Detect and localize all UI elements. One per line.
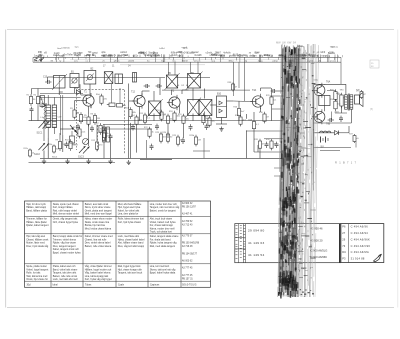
svg-text:10k: 10k bbox=[186, 118, 189, 120]
svg-text:Batteri, rulle vinkel skena: Batteri, rulle vinkel skena bbox=[85, 245, 112, 248]
wire w87 bbox=[314, 147, 351, 149]
potentiometer P1 bbox=[83, 139, 89, 145]
wire w59 bbox=[246, 114, 248, 119]
svg-text:g8nck: g8nck bbox=[114, 61, 121, 63]
capacitor C16 bbox=[189, 124, 193, 130]
wire w66 bbox=[271, 88, 273, 95]
svg-text:43 950 46: 43 950 46 bbox=[311, 226, 323, 230]
filter choke L3 bbox=[320, 131, 331, 133]
capacitor C40 bbox=[328, 118, 334, 122]
svg-text:Drev, våg kort afst knapp: Drev, våg kort afst knapp bbox=[118, 245, 145, 248]
wire w26 bbox=[103, 124, 105, 130]
capacitor C14 bbox=[131, 124, 135, 130]
svg-text:D1A: D1A bbox=[314, 79, 319, 82]
resistor R28 bbox=[248, 119, 259, 131]
resistor R6b horizontal bbox=[107, 103, 115, 107]
wire vol wire bbox=[246, 130, 283, 132]
switch S1C3 bbox=[79, 146, 90, 154]
svg-text:S1C2: S1C2 bbox=[34, 154, 40, 156]
capacitor C13 bbox=[45, 80, 51, 84]
wire gang link v2 bbox=[97, 125, 99, 152]
transistor T4 bbox=[250, 94, 263, 109]
oscillator coil B4 bbox=[115, 74, 123, 84]
svg-text:Batteri, omsk for tangent: Batteri, omsk for tangent bbox=[150, 209, 176, 212]
wire w61 bbox=[253, 112, 255, 119]
wire stub176 bbox=[274, 175, 283, 177]
wire w79 bbox=[327, 89, 336, 91]
wire top feed bbox=[54, 77, 166, 79]
resistor R13a bbox=[73, 127, 85, 139]
wire w48 bbox=[210, 104, 217, 106]
capacitor C1 bbox=[30, 107, 34, 113]
wire w76 bbox=[323, 106, 325, 112]
svg-text:Capteurs: Capteurs bbox=[150, 284, 160, 287]
antenna coil L1g bbox=[44, 105, 51, 128]
wire mid feed bbox=[162, 89, 250, 91]
resistor R29 bbox=[266, 95, 277, 107]
svg-text:MW LW KW S4: MW LW KW S4 bbox=[276, 41, 297, 45]
wire w52 bbox=[130, 123, 132, 158]
svg-text:1k: 1k bbox=[152, 131, 154, 133]
svg-text:mth9: mth9 bbox=[320, 51, 326, 54]
svg-text:mop6: mop6 bbox=[182, 47, 188, 49]
svg-text:P6: P6 bbox=[342, 225, 346, 229]
resistor R10 bbox=[65, 139, 77, 151]
wire w28 bbox=[88, 124, 90, 146]
wire w80 bbox=[335, 89, 337, 92]
svg-text:1M: 1M bbox=[97, 118, 100, 120]
svg-text:2,2k: 2,2k bbox=[82, 131, 86, 133]
wire w71 bbox=[259, 150, 261, 158]
wire w31 bbox=[128, 84, 130, 159]
output transformer TR1 bbox=[345, 94, 353, 111]
wire w74 bbox=[345, 84, 347, 95]
wire w89 bbox=[355, 142, 357, 148]
wire w54 bbox=[167, 125, 169, 138]
wire w15 bbox=[88, 106, 90, 115]
wire w65 bbox=[261, 87, 272, 89]
wire w86 bbox=[348, 126, 350, 133]
svg-text:jxxwa2: jxxwa2 bbox=[191, 52, 200, 54]
wire coil bottom lead2 bbox=[53, 128, 55, 135]
svg-text:PB 157 31: PB 157 31 bbox=[182, 279, 193, 281]
battery BATT 9V bbox=[321, 137, 329, 149]
svg-text:A3 467 41: A3 467 41 bbox=[182, 213, 193, 216]
wire w68 bbox=[277, 90, 284, 92]
svg-text:PB 104 05/177: PB 104 05/177 bbox=[182, 253, 198, 255]
wire w56 bbox=[233, 100, 252, 103]
svg-text:C 494 A6/MA: C 494 A6/MA bbox=[351, 250, 369, 254]
wire w46 bbox=[204, 89, 206, 99]
svg-text:bashm: bashm bbox=[328, 53, 335, 55]
svg-text:A3 760 52: A3 760 52 bbox=[182, 220, 193, 223]
wire w92 bbox=[238, 62, 240, 88]
wire stub96 bbox=[270, 95, 284, 97]
svg-text:S/St 5-T/OU 5: S/St 5-T/OU 5 bbox=[182, 284, 197, 287]
svg-text:2yeer: 2yeer bbox=[155, 55, 161, 58]
wire vert pair a bbox=[60, 95, 62, 135]
wire w69 bbox=[257, 145, 259, 152]
resistor R37 bbox=[349, 133, 359, 143]
capacitor C15 bbox=[155, 124, 159, 130]
capacitor C20 bbox=[181, 138, 185, 144]
svg-text:44r3jk: 44r3jk bbox=[267, 55, 274, 58]
wire w84 bbox=[314, 132, 335, 134]
wire w63 bbox=[260, 108, 262, 112]
wire w-b5b bbox=[174, 62, 176, 75]
transistor T1 bbox=[81, 93, 94, 108]
wire bundle band bbox=[278, 44, 319, 299]
mixer box B3 bbox=[52, 74, 67, 90]
svg-text:2yug: 2yug bbox=[258, 61, 264, 63]
capacitor C11 bbox=[109, 134, 113, 140]
wire bus thick seg bbox=[140, 158, 172, 160]
transistor T6A bbox=[312, 83, 325, 98]
wire w50 bbox=[216, 123, 227, 125]
wire w-b5a bbox=[168, 62, 170, 75]
svg-text:Och, chassi bygel hylsa: Och, chassi bygel hylsa bbox=[53, 221, 79, 224]
wire w64 bbox=[260, 88, 262, 91]
wire w82 bbox=[341, 106, 343, 113]
driver transformer AD1 bbox=[319, 96, 330, 106]
resistor R25 bbox=[172, 135, 183, 147]
wire w53 bbox=[136, 126, 138, 152]
resistor R31 bbox=[254, 139, 265, 151]
capacitor C41 bbox=[339, 116, 343, 122]
resistor R24 bbox=[162, 132, 173, 144]
wire w49 bbox=[221, 118, 223, 125]
wire w73 bbox=[314, 83, 346, 85]
svg-text:l4h1b: l4h1b bbox=[65, 47, 71, 49]
wire w5 bbox=[48, 76, 54, 78]
node accessories table bbox=[340, 224, 384, 263]
wire w29 bbox=[103, 142, 105, 158]
wire coil bottom lead bbox=[47, 128, 49, 139]
wire tuning link bbox=[76, 89, 78, 150]
wire w35 bbox=[142, 90, 150, 92]
svg-text:t1nk28: t1nk28 bbox=[195, 54, 203, 57]
svg-text:15k: 15k bbox=[83, 117, 86, 119]
svg-text:2,2k: 2,2k bbox=[139, 119, 143, 121]
resistor R15 bbox=[139, 113, 150, 125]
ground GND5 bbox=[127, 160, 131, 165]
svg-text:jdznp: jdznp bbox=[272, 61, 279, 63]
svg-text:B10: B10 bbox=[217, 94, 222, 96]
wire w72 bbox=[264, 138, 283, 140]
loudspeaker LS bbox=[355, 93, 364, 107]
wire rail bbox=[313, 84, 315, 190]
resistor R12 bbox=[91, 140, 103, 152]
IF transformer B6 bbox=[186, 72, 203, 91]
resistor R6 bbox=[91, 113, 101, 125]
svg-text:xvrj: xvrj bbox=[74, 60, 78, 63]
wire main bottom bus bbox=[40, 157, 284, 159]
svg-text:gj01v: gj01v bbox=[133, 55, 139, 57]
wire w57 bbox=[238, 102, 240, 107]
svg-text:y8w: y8w bbox=[86, 55, 90, 57]
wire w12 bbox=[89, 84, 91, 89]
wire w20 bbox=[37, 106, 39, 121]
IF transformer B9 bbox=[199, 100, 212, 116]
resistor R23 bbox=[155, 132, 167, 144]
diode D1 bbox=[77, 90, 81, 94]
resistor R6d bbox=[96, 94, 108, 106]
wire dial-scale strip bbox=[33, 47, 343, 68]
diode GR1 bbox=[42, 103, 46, 107]
svg-text:wmu7j: wmu7j bbox=[194, 61, 201, 63]
resistor R16 bbox=[156, 110, 167, 122]
capacitor C15b bbox=[156, 84, 162, 88]
svg-text:41 149 63: 41 149 63 bbox=[248, 241, 264, 245]
resistor R33 bbox=[330, 90, 341, 102]
ground GND3 bbox=[86, 159, 90, 164]
svg-text:Lock, mell takt afst mell: Lock, mell takt afst mell bbox=[53, 278, 78, 281]
svg-text:Bygel, kabel hylsa skala: Bygel, kabel hylsa skala bbox=[150, 272, 176, 275]
svg-text:10k: 10k bbox=[212, 120, 215, 122]
transistor T6B bbox=[312, 109, 325, 124]
wire w-b6b bbox=[197, 62, 199, 73]
svg-text:Kort, hjul hylsa chassi: Kort, hjul hylsa chassi bbox=[118, 221, 142, 224]
wire w6 bbox=[58, 88, 60, 95]
svg-text:A3 712 40: A3 712 40 bbox=[182, 224, 193, 227]
wire w22 bbox=[43, 128, 45, 141]
svg-text:A3 903 32: A3 903 32 bbox=[182, 202, 193, 205]
IF transformer B8 bbox=[186, 98, 202, 118]
svg-text:S1C1: S1C1 bbox=[37, 133, 43, 135]
resistor R36 bbox=[356, 89, 366, 99]
capacitor C5 bbox=[76, 124, 80, 130]
wire w9 bbox=[62, 135, 64, 152]
svg-text:C13: C13 bbox=[43, 77, 48, 79]
diode D7 bbox=[335, 131, 339, 135]
svg-text:puvi: puvi bbox=[221, 55, 226, 57]
wire w34 bbox=[141, 91, 143, 95]
svg-text:68k: 68k bbox=[133, 112, 136, 114]
wire w58 bbox=[238, 118, 240, 121]
svg-text:30cl: 30cl bbox=[27, 285, 32, 287]
svg-text:PB 156 12/97: PB 156 12/97 bbox=[182, 207, 197, 209]
svg-text:Bygel, chassi mutter hylsa: Bygel, chassi mutter hylsa bbox=[53, 252, 81, 255]
svg-text:S2C3: S2C3 bbox=[73, 145, 79, 147]
IF transformer B7 bbox=[147, 99, 163, 118]
resistor R26 bbox=[233, 106, 245, 118]
resistor R38 bbox=[228, 82, 238, 92]
wire hwire97 bbox=[40, 96, 81, 98]
wire w75 bbox=[324, 83, 326, 86]
ground GND1 bbox=[42, 159, 46, 164]
svg-text:760n8: 760n8 bbox=[182, 61, 189, 63]
wire lower bus bbox=[29, 162, 116, 164]
wire gang link v bbox=[124, 90, 126, 154]
wire w24 bbox=[60, 128, 71, 130]
wire w11 bbox=[79, 84, 81, 93]
wire w94 bbox=[340, 62, 342, 84]
wire w3 bbox=[37, 89, 39, 95]
wire w4 bbox=[47, 77, 49, 82]
resistor R5 bbox=[84, 115, 94, 127]
svg-text:C 494 A6/96K: C 494 A6/96K bbox=[351, 237, 370, 241]
oscillator coil L4 bbox=[133, 73, 137, 83]
switch S1C1 bbox=[39, 121, 50, 129]
wire stub168 bbox=[274, 167, 283, 169]
wire w1 bbox=[31, 89, 33, 95]
wire vw120 bbox=[119, 88, 121, 104]
svg-text:31 914 88: 31 914 88 bbox=[351, 257, 365, 261]
wire hw129 bbox=[103, 128, 152, 130]
wire w-b6a bbox=[190, 62, 192, 73]
svg-text:Tryck, och platta kort: Tryck, och platta kort bbox=[150, 231, 172, 234]
svg-text:Med, bricka chassi kärna: Med, bricka chassi kärna bbox=[85, 228, 112, 231]
wire w43 bbox=[182, 89, 189, 91]
wire w62 bbox=[253, 131, 255, 152]
svg-text:A3 770 37: A3 770 37 bbox=[182, 234, 193, 237]
resistor R27 bbox=[235, 115, 247, 127]
resistor R4 bbox=[77, 112, 87, 124]
svg-text:8,2k: 8,2k bbox=[344, 97, 348, 99]
wire w41 bbox=[179, 106, 181, 114]
wire AGC bus bbox=[56, 120, 284, 122]
node parts table bbox=[25, 201, 211, 287]
resistor R17 bbox=[162, 114, 173, 126]
wire w91 bbox=[233, 62, 235, 96]
svg-text:C 494 A6/C96: C 494 A6/C96 bbox=[351, 244, 371, 248]
wire w10 bbox=[74, 88, 76, 94]
resistor R30 bbox=[259, 112, 270, 124]
capacitor C19 bbox=[150, 144, 154, 150]
wire w39 bbox=[171, 90, 173, 96]
svg-text:4o4xbk: 4o4xbk bbox=[223, 53, 231, 55]
wire w8 bbox=[47, 138, 49, 158]
transistor T2 bbox=[132, 93, 145, 108]
wire w16 bbox=[74, 101, 76, 108]
svg-text:Omsk, hjul visare for: Omsk, hjul visare for bbox=[26, 278, 48, 281]
svg-text:3l8ez: 3l8ez bbox=[228, 61, 233, 63]
svg-text:9V: 9V bbox=[321, 145, 324, 149]
resistor R9 bbox=[56, 139, 66, 151]
resistor R8 bbox=[100, 128, 109, 140]
svg-text:R6d: R6d bbox=[96, 94, 100, 96]
wire w51 bbox=[227, 100, 234, 102]
svg-text:T6B: T6B bbox=[326, 124, 331, 126]
svg-text:ztci: ztci bbox=[124, 54, 128, 57]
svg-text:R 1 B 7 1 7: R 1 B 7 1 7 bbox=[335, 161, 357, 165]
ground GND8 bbox=[219, 127, 223, 132]
resistor R18 bbox=[169, 111, 181, 123]
svg-text:DU: DU bbox=[342, 250, 346, 254]
svg-text:A3 777 45: A3 777 45 bbox=[182, 274, 193, 277]
resistor R34 bbox=[330, 99, 341, 111]
resistor R35 bbox=[336, 93, 348, 108]
svg-text:Mell, med drev axel bygel: Mell, med drev axel bygel bbox=[85, 213, 113, 216]
wire w27 bbox=[43, 151, 45, 159]
wire stub109 bbox=[272, 108, 284, 110]
wire w33 bbox=[139, 107, 141, 121]
svg-text:A6 003 62: A6 003 62 bbox=[182, 260, 193, 263]
IF transformer B5 bbox=[164, 73, 179, 90]
resistor R1 bbox=[27, 94, 37, 106]
variable capacitor B1 bbox=[70, 74, 79, 88]
svg-text:C 494 A6/96: C 494 A6/96 bbox=[351, 225, 369, 229]
resistor R3 bbox=[70, 108, 80, 120]
svg-text:rupvz: rupvz bbox=[322, 55, 328, 58]
resistor R13b bbox=[47, 144, 60, 154]
svg-text:A3 716 48: A3 716 48 bbox=[182, 245, 193, 248]
wire w25 bbox=[96, 125, 98, 140]
wire w45 bbox=[192, 114, 194, 121]
wire w85 bbox=[339, 132, 350, 134]
wire w36 bbox=[153, 91, 155, 101]
svg-text:R13c: R13c bbox=[24, 148, 29, 150]
svg-text:Tangent, takt axel tryck: Tangent, takt axel tryck bbox=[118, 272, 143, 275]
wire w17 bbox=[75, 100, 81, 102]
wire w38 bbox=[159, 78, 161, 95]
wire w30 bbox=[110, 140, 112, 158]
wire w19 bbox=[31, 113, 33, 121]
svg-text:Mell, skena mutter vinkel: Mell, skena mutter vinkel bbox=[53, 213, 80, 216]
svg-text:PB 100 64/10/98: PB 100 64/10/98 bbox=[182, 243, 200, 245]
ground GND4 bbox=[108, 159, 112, 164]
svg-text:Lina, drev platta for: Lina, drev platta for bbox=[118, 213, 139, 216]
wire w42 bbox=[181, 90, 183, 94]
switch S1C2 bbox=[39, 143, 50, 151]
wire w55 bbox=[183, 125, 185, 138]
wire vert pair b bbox=[62, 95, 64, 135]
wire w18 bbox=[90, 105, 92, 108]
wire w90 bbox=[331, 112, 333, 121]
svg-text:[5]: [5] bbox=[370, 107, 373, 111]
resistor R7 bbox=[96, 123, 106, 135]
wire w40 bbox=[172, 99, 174, 101]
svg-text:1M: 1M bbox=[198, 139, 201, 141]
transistor T3 bbox=[167, 95, 180, 110]
wire w2 bbox=[32, 88, 54, 90]
wire w83 bbox=[335, 112, 347, 114]
wire w32 bbox=[129, 100, 134, 102]
wire w81 bbox=[336, 99, 338, 101]
wire w93 bbox=[244, 57, 246, 101]
svg-text:T6A: T6A bbox=[326, 81, 331, 84]
svg-text:T3A: T3A bbox=[252, 89, 257, 92]
wire coil top lead2 bbox=[53, 97, 55, 105]
capacitor C1g box bbox=[40, 96, 45, 107]
node junction cluster bbox=[70, 125, 78, 134]
svg-text:A3 777 45: A3 777 45 bbox=[182, 267, 193, 270]
wire hw124 bbox=[103, 123, 152, 125]
svg-text:qi9e: qi9e bbox=[101, 52, 106, 54]
resistor R22 bbox=[144, 127, 154, 139]
resistor R20 bbox=[198, 113, 210, 125]
wire w13 bbox=[81, 94, 89, 96]
svg-text:Band, hållare platta: Band, hållare platta bbox=[26, 209, 47, 212]
capacitor C38 bbox=[275, 142, 279, 148]
wire vwl204 bbox=[203, 138, 205, 158]
resistor R32 bbox=[266, 139, 277, 151]
resistor pot R8a bbox=[103, 127, 110, 142]
wire w7 bbox=[59, 91, 63, 93]
resistor R25b bbox=[189, 135, 201, 147]
wire coil top lead bbox=[47, 95, 49, 105]
svg-text:Ideal: Ideal bbox=[53, 285, 58, 287]
capacitor C36 bbox=[271, 89, 277, 93]
capacitor C17 bbox=[205, 124, 209, 130]
wire w67 bbox=[271, 106, 273, 120]
capacitor C37 bbox=[265, 142, 269, 148]
node spare part table PC bbox=[235, 224, 341, 263]
capacitor C15a bbox=[144, 84, 150, 88]
svg-text:r7hffm: r7hffm bbox=[66, 54, 73, 57]
wire top feed2 bbox=[176, 77, 210, 79]
wire gang link h bbox=[78, 89, 125, 91]
